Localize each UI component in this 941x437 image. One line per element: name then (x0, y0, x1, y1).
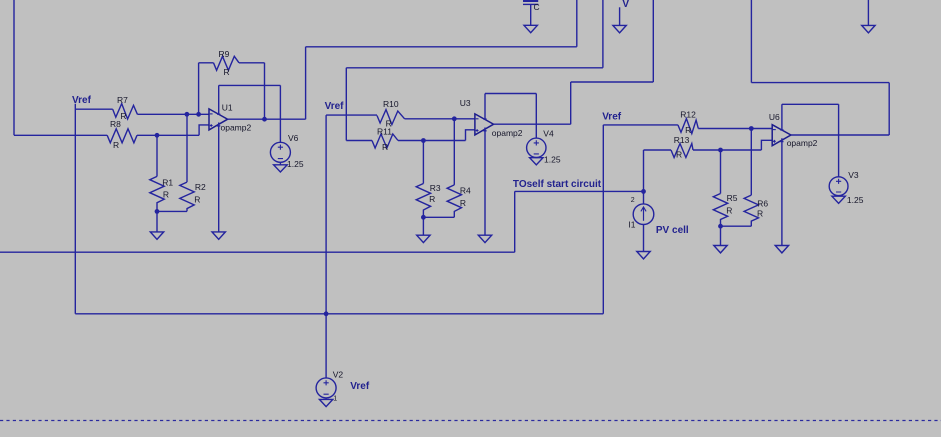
resistor R12 (603, 119, 772, 134)
svg-text:R2: R2 (195, 182, 206, 192)
svg-text:1.25: 1.25 (287, 159, 304, 169)
resistor R10 (326, 110, 475, 125)
svg-text:R6: R6 (757, 199, 768, 209)
svg-text:I1: I1 (628, 220, 635, 230)
svg-text:R: R (460, 198, 466, 208)
svg-text:U1: U1 (222, 102, 233, 112)
voltage source V2 (316, 378, 336, 407)
svg-text:R10: R10 (383, 99, 399, 109)
svg-text:V: V (622, 0, 629, 10)
wire R2 drop (186, 114, 188, 182)
current source I1 (633, 150, 654, 259)
resistor R7 (75, 104, 209, 119)
ground under U3 V- (478, 235, 491, 242)
resistor R2 (180, 182, 194, 211)
dashed separator line (0, 420, 941, 422)
ground under R1 (150, 232, 163, 239)
svg-text:opamp2: opamp2 (492, 128, 523, 138)
svg-text:R7: R7 (117, 95, 128, 105)
voltage source V3 (829, 177, 848, 204)
svg-text:1.25: 1.25 (544, 155, 561, 165)
svg-text:opamp2: opamp2 (787, 138, 818, 148)
svg-text:R: R (429, 194, 435, 204)
svg-text:R: R (757, 209, 763, 219)
supply box U1 to V6 (219, 85, 281, 142)
svg-text:R: R (676, 150, 682, 160)
svg-text:U3: U3 (460, 98, 471, 108)
svg-text:PV cell: PV cell (656, 225, 689, 236)
wire Vref stage1 vertical (74, 104, 76, 314)
supply box U5 to V3 (782, 104, 839, 177)
op-amp U1 (209, 85, 228, 232)
wire Vref stage3 vertical (602, 125, 604, 314)
voltage source V4 (527, 138, 546, 165)
wire Vref bottom bus (75, 313, 603, 315)
svg-text:R: R (726, 206, 732, 216)
wire Vref feed to R11 (top) (346, 0, 603, 68)
svg-text:opamp2: opamp2 (221, 123, 252, 133)
svg-text:R5: R5 (727, 193, 738, 203)
wire Vref net stage2 vertical (to V2) (325, 115, 327, 378)
resistor R3 (416, 141, 430, 218)
capacitor C (523, 1, 538, 33)
voltage source V6 (270, 142, 290, 172)
op-amp U5 (772, 104, 791, 245)
svg-text:V2: V2 (333, 370, 344, 380)
svg-text:R3: R3 (430, 183, 441, 193)
wire R3 R4 join (423, 217, 454, 235)
svg-text:R: R (685, 125, 691, 135)
resistor R6 (right divider) (744, 129, 758, 227)
svg-text:R8: R8 (110, 119, 121, 129)
resistor R11 (346, 68, 475, 148)
svg-text:R1: R1 (162, 177, 173, 187)
resistor R1 (150, 135, 164, 211)
svg-text:1.25: 1.25 (847, 195, 864, 205)
svg-text:R: R (224, 67, 230, 77)
wire R1 R2 join (157, 211, 187, 232)
supply box U3 to V4 (485, 94, 536, 139)
resistor R13 (644, 144, 762, 158)
svg-text:V4: V4 (543, 129, 554, 139)
resistor R8 (14, 129, 199, 143)
svg-text:TOself start circuit: TOself start circuit (513, 179, 602, 190)
net label V ground (619, 7, 621, 25)
svg-text:R9: R9 (219, 49, 230, 59)
wire TOself start circuit (0, 191, 644, 252)
wire R5 R6 join (721, 226, 752, 245)
svg-text:R13: R13 (674, 135, 690, 145)
resistor R9 (199, 56, 265, 119)
junction R10/R4 handled below; resistor R4 (447, 119, 461, 218)
svg-text:R: R (120, 111, 126, 121)
svg-text:Vref: Vref (350, 381, 370, 392)
wire U5 plus path (761, 140, 772, 150)
svg-text:C: C (534, 2, 540, 12)
wire U3 output (494, 0, 654, 124)
svg-text:R: R (163, 189, 169, 199)
svg-text:V3: V3 (848, 170, 859, 180)
op-amp U3 (475, 94, 494, 236)
ground under U1 V- (212, 232, 225, 239)
ground under U5 V- (775, 246, 788, 253)
ground under R3 (417, 235, 430, 242)
svg-text:U6: U6 (769, 112, 780, 122)
svg-text:R11: R11 (377, 127, 392, 137)
wire U1 output (228, 0, 577, 119)
svg-text:R: R (194, 195, 200, 205)
svg-text:V6: V6 (288, 133, 299, 143)
top right ground wire (867, 0, 869, 25)
svg-text:R4: R4 (460, 186, 471, 196)
wire R8 to plus input (199, 125, 209, 135)
resistor R5 (left divider) (713, 150, 727, 226)
wire U5 output loop (751, 0, 889, 135)
wire left rail (13, 0, 15, 135)
svg-text:R: R (113, 140, 119, 150)
svg-text:Vref: Vref (72, 95, 92, 106)
svg-text:Vref: Vref (325, 101, 345, 112)
svg-text:R: R (382, 142, 388, 152)
svg-text:1: 1 (333, 396, 337, 403)
svg-text:R12: R12 (680, 109, 696, 119)
ground under R5 (714, 246, 727, 253)
svg-text:Vref: Vref (602, 112, 622, 123)
svg-text:2: 2 (631, 197, 635, 204)
